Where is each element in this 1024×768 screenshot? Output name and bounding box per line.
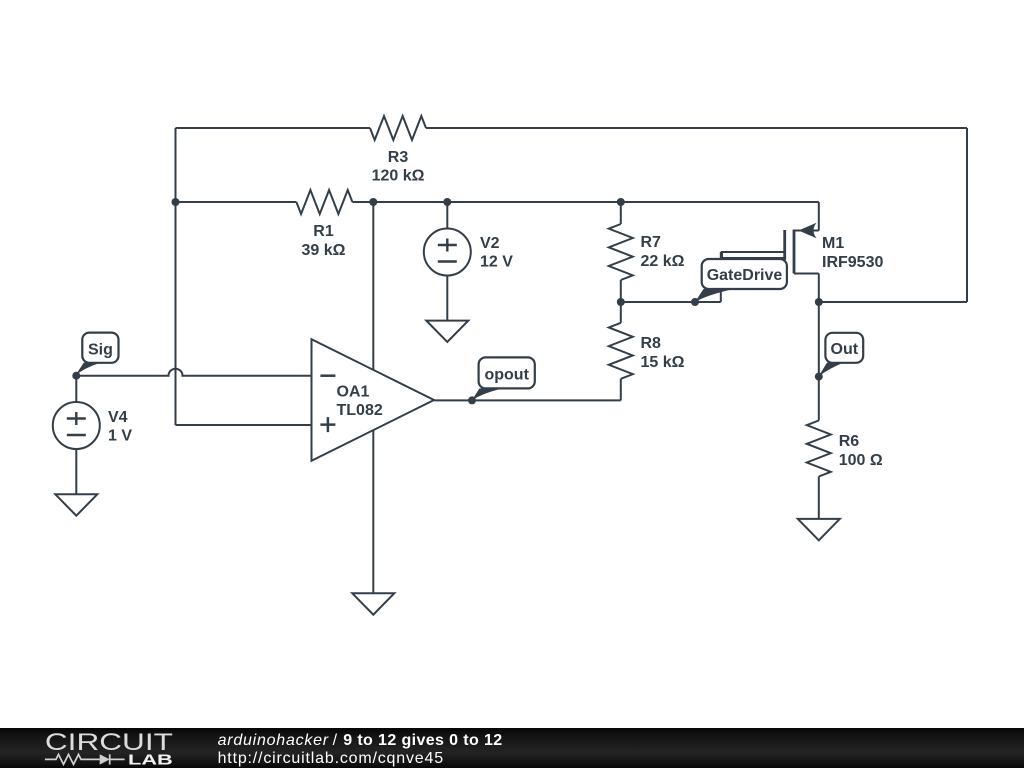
wire Sig to minus input with hop (76, 369, 311, 376)
wire GateDrive vertical riser (720, 252, 722, 302)
node Out flag anchor (815, 373, 823, 381)
wire R8 bottom lead (620, 379, 622, 401)
wire V4 bottom lead (75, 449, 77, 494)
svg-text:/: / (333, 732, 338, 749)
svg-text:R3: R3 (388, 149, 409, 166)
wire drain to right vertical (819, 301, 967, 303)
svg-text:R6: R6 (839, 433, 860, 450)
wire mid rail right (352, 201, 818, 203)
wire V2 top lead (446, 202, 448, 229)
svg-text:opout: opout (484, 367, 529, 384)
voltage source V2 (424, 229, 513, 276)
M1 source arrow (799, 223, 817, 238)
node R7/R8 junction (617, 298, 625, 306)
svg-text:12 V: 12 V (480, 254, 513, 271)
resistor R6 (807, 421, 831, 477)
flag Out (819, 333, 864, 377)
M1 gate pin hook (722, 252, 785, 258)
flag opout (472, 357, 535, 400)
voltage source V4 (53, 402, 133, 449)
M1 drain stub (794, 273, 819, 275)
svg-text:1 V: 1 V (108, 428, 132, 445)
resistor R3 (370, 116, 426, 140)
wire GateDrive horizontal (621, 301, 721, 303)
wire to gate (721, 251, 785, 253)
resistor R7 (609, 224, 633, 280)
svg-text:R7: R7 (641, 234, 662, 251)
node Sig (72, 372, 80, 380)
svg-text:GateDrive: GateDrive (707, 267, 783, 284)
resistor R1 (296, 190, 352, 214)
node V2 tap (443, 198, 451, 206)
svg-text:R1: R1 (313, 223, 334, 240)
svg-text:120 kΩ: 120 kΩ (372, 168, 425, 185)
flag GateDrive (695, 259, 787, 302)
ground for op-amp (352, 593, 394, 614)
logo icon resistor + diode (45, 754, 125, 764)
svg-text:http://circuitlab.com/cqnve45: http://circuitlab.com/cqnve45 (218, 750, 444, 767)
svg-text:IRF9530: IRF9530 (822, 254, 883, 271)
node left rail / mid rail (172, 198, 180, 206)
transistor M1 bars (785, 230, 794, 274)
junction node dots (72, 198, 823, 404)
node drain/Out (815, 298, 823, 306)
node op-amp V+ tap (369, 198, 377, 206)
wire mid rail left (176, 201, 297, 203)
M1 drain lead (818, 274, 820, 303)
wire V4 top lead (75, 376, 77, 402)
svg-text:Out: Out (831, 341, 859, 358)
footer bar (0, 728, 1024, 768)
wire M1 source lead (818, 202, 820, 231)
svg-text:M1: M1 (822, 235, 844, 252)
wire R7 bottom lead (620, 280, 622, 302)
ground for R6 (798, 519, 840, 540)
wire top rail left lead (176, 127, 371, 129)
resistor R8 (609, 323, 633, 379)
wire left vertical (175, 128, 177, 425)
node GateDrive (691, 298, 699, 306)
svg-text:OA1: OA1 (337, 384, 370, 401)
flag Sig (76, 333, 119, 376)
wire op-amp power pins vertical (372, 202, 374, 593)
ground for V2 (426, 321, 468, 342)
svg-text:LAB: LAB (128, 752, 173, 768)
wire op-amp output (434, 399, 621, 401)
ground for V4 (55, 494, 97, 515)
svg-text:15 kΩ: 15 kΩ (641, 354, 685, 371)
svg-text:TL082: TL082 (337, 402, 383, 419)
wire R6 bottom lead (818, 477, 820, 519)
wire plus input (176, 424, 312, 426)
wire right vertical (966, 128, 968, 302)
svg-text:9 to 12 gives 0 to 12: 9 to 12 gives 0 to 12 (343, 732, 502, 749)
svg-text:R8: R8 (641, 335, 662, 352)
svg-text:Sig: Sig (88, 342, 113, 359)
svg-text:V4: V4 (108, 409, 128, 426)
wire R7 top lead (620, 202, 622, 224)
op-amp OA1 body (312, 339, 435, 461)
svg-text:39 kΩ: 39 kΩ (302, 242, 346, 259)
wire drain down to R6 (818, 302, 820, 421)
wire top rail right lead (426, 127, 967, 129)
transistor M1 labels (822, 235, 883, 271)
svg-text:100 Ω: 100 Ω (839, 452, 883, 469)
M1 source stub (794, 230, 819, 232)
wire V2 bottom lead (446, 276, 448, 321)
svg-text:arduinohacker: arduinohacker (218, 732, 329, 749)
svg-text:22 kΩ: 22 kΩ (641, 253, 685, 270)
svg-text:V2: V2 (480, 235, 500, 252)
node opout (468, 396, 476, 404)
wire R8 top lead (620, 302, 622, 323)
node R7 top (617, 198, 625, 206)
